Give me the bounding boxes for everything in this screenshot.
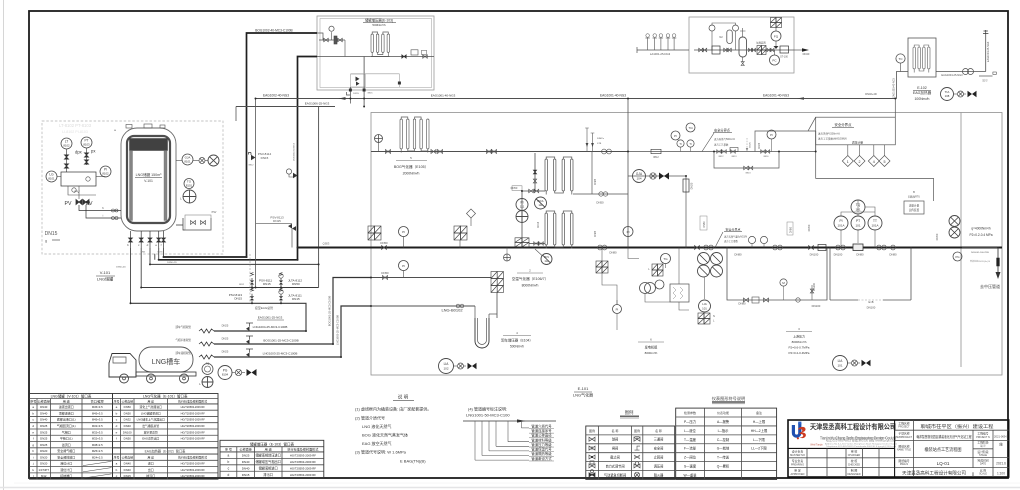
- svg-text:DN50: DN50: [596, 201, 604, 205]
- svg-text:进方天然气500m³/d: 进方天然气500m³/d: [818, 132, 840, 136]
- svg-text:DN50+2D: DN50+2D: [167, 262, 177, 264]
- svg-text:执行标准及密封面形式: 执行标准及密封面形式: [287, 446, 318, 451]
- svg-text:DN15: DN15: [242, 473, 250, 477]
- svg-text:DN15: DN15: [292, 297, 300, 301]
- pipe junction dots: [246, 256, 248, 258]
- table V-101 nozzles: [30, 394, 113, 480]
- instrument wiring: [841, 200, 875, 248]
- tank right lower manifold: [176, 218, 211, 230]
- svg-text:DN80: DN80: [856, 253, 864, 257]
- svg-text:DN15: DN15: [234, 297, 242, 301]
- lines to tank nozzles: [79, 205, 121, 211]
- wire tank liquid to E-103 inlet2 (heavy): [159, 57, 317, 260]
- nozzle downpipes to unloading: [130, 248, 132, 303]
- wire EAG drop to regulator callout: [894, 99, 896, 118]
- TI/PI cluster above line: [671, 131, 680, 140]
- svg-text:DN25: DN25: [40, 430, 48, 434]
- svg-text:QS03: QS03: [323, 242, 330, 246]
- main line fittings overall: [809, 246, 814, 250]
- svg-text:HG/T20593-2009 RF: HG/T20593-2009 RF: [181, 430, 206, 434]
- wire EAG header B: [236, 106, 335, 108]
- wire EAG to E-102: [897, 72, 909, 99]
- instrument PI-101A: [834, 216, 848, 230]
- svg-text:DN25: DN25: [222, 324, 229, 328]
- svg-text:SCALE: SCALE: [979, 473, 987, 476]
- wire BOG1002 tank to E-103 (heavy): [164, 33, 318, 257]
- svg-text:LNG 液化天然气: LNG 液化天然气: [362, 423, 391, 429]
- svg-text:说 明: 说 明: [398, 394, 409, 401]
- nozzle couplings: [112, 209, 115, 212]
- instrument PT-8103: [81, 137, 92, 148]
- truck esd valve (black): [247, 369, 257, 376]
- svg-text:DN80: DN80: [889, 253, 897, 257]
- svg-text:EAG1002-40-NG3: EAG1002-40-NG3: [263, 94, 289, 98]
- svg-text:101: 101: [702, 307, 707, 311]
- svg-text:LNG储罐 150m³: LNG储罐 150m³: [136, 172, 163, 177]
- truck gauge x: [232, 372, 235, 374]
- svg-text:8102: 8102: [63, 144, 70, 148]
- svg-text:8000m³/h: 8000m³/h: [645, 351, 658, 355]
- JLTA-8111 relief: [279, 288, 283, 303]
- svg-text:5: 5: [884, 160, 886, 164]
- svg-text:2000Nm³/h: 2000Nm³/h: [403, 172, 420, 176]
- svg-text:8101: 8101: [186, 184, 193, 188]
- E-104 filter block: [491, 272, 504, 293]
- svg-text:8000Nm³/h: 8000Nm³/h: [792, 340, 807, 344]
- svg-text:104: 104: [636, 177, 641, 181]
- svg-text:DN50: DN50: [124, 437, 132, 441]
- diamond 5: [884, 145, 886, 156]
- svg-text:加臭装置: 加臭装置: [756, 41, 766, 45]
- svg-text:LL—2下限: LL—2下限: [751, 446, 767, 451]
- E-102 vent riser: [985, 34, 987, 72]
- svg-text:DN20: DN20: [40, 462, 48, 466]
- svg-text:LNG1002-50-MC3: LNG1002-50-MC3: [293, 142, 295, 161]
- svg-text:DN15: DN15: [261, 156, 269, 160]
- dashed link tank box to EAG note: [249, 254, 251, 303]
- wire BOG line continues to regulator loop: [628, 151, 816, 153]
- callout small: safety boundary: [702, 133, 714, 152]
- M circles above line: [748, 236, 755, 243]
- svg-text:E BAG(TN)(B): E BAG(TN)(B): [400, 459, 426, 464]
- riser mid: [811, 285, 813, 300]
- svg-text:Φ32×3.5: Φ32×3.5: [92, 424, 103, 428]
- svg-text:V-101: V-101: [100, 270, 111, 275]
- svg-text:TT: TT: [873, 219, 877, 223]
- svg-text:HH—2上限: HH—2上限: [751, 428, 768, 433]
- svg-text:DN15: DN15: [537, 221, 540, 228]
- svg-text:设 计: 设 计: [980, 444, 986, 448]
- GJA-104 instrument: [633, 170, 646, 183]
- svg-text:电话:022-86576815 邮编:300130: 电话:022-86576815 邮编:300130 网址:www.tjycgk.…: [826, 439, 896, 443]
- svg-text:HG/T20593-2009 RF: HG/T20593-2009 RF: [290, 460, 316, 464]
- truck meter group: double circle: [202, 364, 213, 375]
- svg-text:PI: PI: [627, 230, 630, 234]
- svg-text:审 定: 审 定: [794, 468, 801, 473]
- svg-text:DN100: DN100: [812, 282, 816, 291]
- svg-text:发电机组: 发电机组: [645, 345, 659, 350]
- table E-101 nozzles: [113, 394, 219, 480]
- svg-text:1: 1: [847, 160, 849, 164]
- svg-text:PI: PI: [402, 230, 405, 234]
- svg-text:LNG气化器: LNG气化器: [573, 392, 593, 398]
- svg-text:HG/T20593-2009 RF: HG/T20593-2009 RF: [290, 454, 316, 458]
- svg-text:B: B: [913, 190, 915, 194]
- svg-text:DN100: DN100: [812, 304, 821, 308]
- tank pressurizer box E-103 outer: [317, 16, 434, 90]
- svg-text:管道压力等级: 管道压力等级: [531, 442, 552, 447]
- svg-text:序号: 序号: [114, 454, 120, 459]
- svg-text:T—传送: T—传送: [717, 455, 730, 460]
- svg-text:储罐液相进口: 储罐液相进口: [259, 465, 278, 470]
- PSV-8114 relief on EAG riser: [251, 155, 256, 160]
- dashed instrument signal: [746, 138, 748, 152]
- svg-text:2: 2: [859, 160, 861, 164]
- svg-text:DN15: DN15: [273, 219, 281, 223]
- svg-text:排污口: 排污口: [146, 473, 155, 478]
- legend table: [586, 426, 675, 479]
- svg-text:管口/壁厚: 管口/壁厚: [91, 398, 104, 403]
- svg-text:PI: PI: [674, 134, 677, 138]
- E-103 right drop: [351, 74, 400, 87]
- svg-text:L—液位: L—液位: [684, 428, 696, 433]
- gauge manifold block: [61, 172, 96, 186]
- svg-text:DATE: DATE: [980, 463, 987, 466]
- svg-text:F—流量: F—流量: [684, 446, 697, 451]
- nozzle b: [130, 231, 132, 248]
- callout box: [816, 117, 896, 145]
- svg-text:SUBPROJECT: SUBPROJECT: [896, 436, 913, 439]
- svg-text:BOG1001-25-MC3-C100B: BOG1001-25-MC3-C100B: [328, 296, 332, 327]
- svg-text:执行标准及密封面形式: 执行标准及密封面形式: [178, 398, 207, 403]
- instrument LT-8102: [61, 138, 72, 149]
- svg-text:PI: PI: [616, 308, 619, 312]
- svg-text:DN50: DN50: [703, 221, 706, 228]
- gas cylinder skid box top right: [689, 17, 794, 73]
- svg-text:DN80: DN80: [734, 253, 742, 257]
- svg-text:BOG气化器（E105）: BOG气化器（E105）: [394, 164, 428, 169]
- svg-text:112: 112: [544, 259, 549, 263]
- skid valves/filter: [699, 48, 704, 52]
- control valve station on main line x454-467: [454, 226, 467, 240]
- svg-text:EAG1004-25-NG3: EAG1004-25-NG3: [987, 41, 990, 62]
- diamond 2: [859, 145, 861, 156]
- svg-text:DN32: DN32: [124, 418, 132, 422]
- instrument stack left main line: [368, 226, 381, 240]
- svg-text:2021-069-S: 2021-069-S: [994, 434, 1008, 438]
- wire GJA branch: [628, 176, 686, 248]
- svg-text:STB: STB: [597, 143, 602, 145]
- JLTA-8113 on tank feed riser: [286, 169, 291, 174]
- svg-text:T—温度: T—温度: [684, 437, 697, 442]
- svg-text:公称直径: 公称直径: [121, 454, 133, 459]
- wire E-106 feed riser from BOG line: [522, 153, 535, 191]
- svg-text:G—就地: G—就地: [717, 446, 730, 451]
- svg-text:4: 4: [873, 160, 875, 164]
- svg-text:50MPa: 50MPa: [597, 138, 605, 140]
- svg-text:dpx: dpx: [75, 150, 83, 155]
- svg-text:Address:No.6-1-501 Vanke Zhong: Address:No.6-1-501 Vanke Zhonghuan Baoli…: [825, 443, 898, 446]
- svg-text:100Nm³/h: 100Nm³/h: [915, 97, 930, 101]
- tank inner top dark band: [130, 139, 168, 151]
- svg-text:DN25: DN25: [222, 337, 229, 341]
- svg-text:EAG1001-25-NG3: EAG1001-25-NG3: [258, 316, 283, 320]
- svg-text:调压计量: 调压计量: [852, 141, 863, 145]
- TG circle: [661, 254, 671, 264]
- svg-text:(4) 管道编号标注说明:: (4) 管道编号标注说明:: [468, 406, 507, 412]
- svg-text:LNG储罐至进口: LNG储罐至进口: [141, 411, 161, 415]
- inline tag box on BOG line: [651, 149, 661, 153]
- svg-text:DWG N: DWG N: [900, 463, 909, 466]
- E-103 pressure gauge: [329, 26, 334, 31]
- svg-text:DN15: DN15: [45, 231, 58, 237]
- svg-text:TI: TI: [679, 142, 682, 146]
- svg-text:仪表功能: 仪表功能: [717, 410, 729, 415]
- svg-text:阻火器: 阻火器: [654, 472, 664, 477]
- svg-text:DN100: DN100: [867, 306, 876, 310]
- svg-text:LNG储车上气化器出口: LNG储车上气化器出口: [137, 418, 165, 422]
- svg-text:101: 101: [837, 364, 842, 368]
- tank skid dashed box: [42, 121, 223, 254]
- svg-text:DN50+4D: DN50+4D: [116, 267, 126, 269]
- instrument PT-101: [851, 216, 865, 230]
- svg-text:气动紧急切断阀: 气动紧急切断阀: [604, 472, 626, 477]
- svg-text:顶部进液口: 顶部进液口: [59, 410, 74, 415]
- PSV-8113 relief: [250, 288, 254, 303]
- svg-text:HG/T20593-2009 RF: HG/T20593-2009 RF: [181, 405, 206, 409]
- svg-text:TI4: TI4: [688, 126, 692, 130]
- svg-text:STAGE: STAGE: [979, 454, 987, 457]
- wire unloading hose line 1 (gas return): [214, 330, 306, 332]
- truck cab: [109, 354, 136, 378]
- svg-text:PSV: PSV: [212, 211, 217, 214]
- BOG vaporizer E-105: [400, 117, 429, 153]
- svg-text:H—上限: H—上限: [753, 419, 766, 424]
- svg-text:DN100: DN100: [810, 253, 819, 257]
- svg-text:CHECKED: CHECKED: [848, 463, 860, 466]
- svg-text:仪表图形符号说明: 仪表图形符号说明: [712, 395, 746, 402]
- small circle left: [613, 305, 622, 314]
- svg-text:W—重量: W—重量: [683, 472, 697, 477]
- svg-text:执行标准及密封面形式: 执行标准及密封面形式: [178, 454, 207, 459]
- svg-text:名 称: 名 称: [612, 428, 619, 433]
- svg-text:PG: PG: [955, 255, 959, 259]
- svg-text:8102: 8102: [102, 172, 109, 176]
- svg-text:用 途: 用 途: [63, 398, 70, 403]
- skid boundary main box: [371, 113, 1002, 376]
- svg-text:聊城市茌平区（振兴）建设工程: 聊城市茌平区（振兴）建设工程: [921, 423, 994, 430]
- downstream valves: [749, 48, 753, 51]
- svg-text:气相口: 气相口: [62, 429, 71, 434]
- svg-text:管道材料等级: 管道材料等级: [531, 437, 552, 442]
- flow computer circles: [949, 216, 960, 227]
- wire unloading hose line 2 (BOG): [214, 278, 371, 345]
- wire LNG-B0102: [371, 305, 475, 307]
- svg-text:设计负责: 设计负责: [792, 449, 804, 454]
- svg-text:管道连接序号: 管道连接序号: [531, 428, 552, 433]
- svg-text:LT-8102 PT-8103: LT-8102 PT-8103: [59, 123, 92, 128]
- twin circles: [640, 283, 651, 294]
- svg-text:8000Nm³/h: 8000Nm³/h: [522, 284, 539, 288]
- svg-text:平衡口(1): 平衡口(1): [60, 436, 73, 441]
- air-temp vaporizer E-107: [545, 211, 573, 249]
- PI on loop: [767, 130, 776, 139]
- filter block left of cluster: [596, 261, 608, 273]
- wire EAG-B riser x318.6: [318, 107, 320, 288]
- svg-text:储罐增压器(E-103): 储罐增压器(E-103): [365, 18, 393, 23]
- svg-text:液化上气化器进口: 液化上气化器进口: [140, 405, 163, 409]
- spring vessel: [670, 284, 689, 302]
- svg-text:I—指示: I—指示: [718, 428, 730, 433]
- sub-table E-102 nozzles: [113, 447, 219, 449]
- continuation arrow right of skid: [794, 49, 802, 51]
- svg-text:进方工艺参数为NG(DM)N: 进方工艺参数为NG(DM)N: [818, 137, 847, 141]
- svg-text:TI: TI: [689, 142, 692, 146]
- svg-text:E-102: E-102: [917, 86, 927, 90]
- svg-text:DN20: DN20: [40, 449, 48, 453]
- E-103 inlet manifold: [317, 33, 434, 57]
- svg-text:DN50: DN50: [381, 271, 389, 275]
- svg-text:8815: 8815: [368, 93, 374, 95]
- PCV on riser: [683, 179, 689, 192]
- wire N2 manifold line: [637, 49, 689, 51]
- svg-text:Telephone:022-86576815 Postal: Telephone:022-86576815 Postalcode:300130…: [826, 445, 896, 448]
- svg-text:公称直径: 公称直径: [239, 446, 251, 451]
- E-105 vent circle: [375, 135, 383, 143]
- wire E-104 U-tube: [496, 293, 498, 319]
- svg-text:DN15: DN15: [124, 474, 132, 478]
- svg-text:101A: 101A: [837, 224, 844, 228]
- svg-text:DN100: DN100: [834, 253, 843, 257]
- svg-text:EAG 放空天然气: EAG 放空天然气: [362, 440, 392, 446]
- E-102 TC instrument: [896, 54, 905, 63]
- svg-text:天津昱丞高科工程设计有限公司: 天津昱丞高科工程设计有限公司: [810, 422, 896, 431]
- svg-text:C—控制: C—控制: [717, 437, 730, 442]
- wire unloading hose line 3 (LNG): [214, 306, 371, 357]
- svg-text:DN25: DN25: [242, 454, 250, 458]
- svg-text:HG/T20593-2009 RF: HG/T20593-2009 RF: [290, 473, 316, 477]
- svg-text:DN50: DN50: [807, 224, 811, 231]
- svg-text:管道保温代号: 管道保温代号: [531, 447, 552, 452]
- svg-text:500Nm³/h: 500Nm³/h: [510, 345, 524, 349]
- wire E-103 drain risers: [363, 57, 365, 107]
- svg-text:DN25: DN25: [594, 178, 597, 185]
- PG-101: [953, 252, 962, 261]
- svg-text:液位计口: 液位计口: [60, 467, 72, 472]
- svg-text:PROJECT N: PROJECT N: [976, 436, 990, 439]
- svg-text:EAG1001-40-NG3: EAG1001-40-NG3: [600, 94, 626, 98]
- tank inner side bands: [130, 151, 133, 221]
- svg-text:橇装站点工艺流程图: 橇装站点工艺流程图: [925, 446, 962, 453]
- E-102 outlet: [936, 71, 986, 73]
- svg-text:接地端口: 接地端口: [60, 473, 72, 478]
- svg-text:去中压管道: 去中压管道: [980, 283, 1000, 289]
- svg-text:MASTER NO: MASTER NO: [790, 454, 805, 457]
- svg-text:HG/T20593-2009 RF: HG/T20593-2009 RF: [181, 418, 206, 422]
- wire vent stack riser left: [235, 107, 237, 122]
- svg-text:DN40: DN40: [242, 466, 250, 470]
- svg-text:DN40: DN40: [124, 468, 132, 472]
- E-106 inlet fittings: [529, 189, 534, 193]
- svg-text:进口: 进口: [148, 461, 154, 466]
- svg-text:空温气化器（E106/7）: 空温气化器（E106/7）: [512, 276, 549, 281]
- svg-text:放空至总管: 放空至总管: [144, 430, 158, 434]
- svg-text:NAME TITLE: NAME TITLE: [897, 449, 911, 452]
- svg-text:P2=0.2-0.4 MPa: P2=0.2-0.4 MPa: [969, 233, 992, 237]
- svg-text:Φ38×2.5: Φ38×2.5: [92, 443, 103, 447]
- svg-text:8813: 8813: [746, 173, 752, 175]
- regulator circle on main line: [541, 254, 552, 265]
- wire vertical EAG riser x255: [255, 99, 257, 288]
- svg-text:GJA: GJA: [636, 172, 643, 176]
- svg-text:DN15: DN15: [353, 93, 359, 95]
- svg-text:BOG 液化天然气蒸发气体: BOG 液化天然气蒸发气体: [362, 432, 408, 438]
- svg-text:储罐增压器（E-103）管口表: 储罐增压器（E-103）管口表: [250, 442, 295, 447]
- wire main product header (heavy): [298, 247, 1003, 249]
- svg-text:LNG槽车: LNG槽车: [152, 357, 180, 366]
- svg-text:8816: 8816: [764, 156, 770, 158]
- svg-text:流量计量: 流量计量: [909, 204, 920, 208]
- tank right instruments GJA-8101: [182, 154, 193, 165]
- svg-text:EAG1004-25-NG3: EAG1004-25-NG3: [941, 73, 963, 77]
- svg-text:8101: 8101: [184, 160, 191, 164]
- svg-text:审 核: 审 核: [851, 449, 858, 454]
- svg-text:上游压力: 上游压力: [793, 334, 805, 339]
- tank pressurizer box E-103 inner: [320, 19, 432, 88]
- svg-text:Q—累积: Q—累积: [717, 464, 730, 469]
- vent risers x587 x592: [587, 128, 593, 152]
- svg-text:远传装置: 远传装置: [909, 208, 920, 212]
- svg-text:PREARING: PREARING: [791, 463, 804, 466]
- svg-text:PCV: PCV: [544, 255, 550, 259]
- svg-text:ST-100: ST-100: [780, 56, 788, 59]
- svg-text:图例: 图例: [589, 428, 595, 433]
- svg-text:气相回流口(1): 气相回流口(1): [57, 423, 76, 428]
- safety callout above main line: [715, 232, 723, 248]
- loop2 inline: [858, 299, 883, 301]
- svg-text:BOG1001-25-MC3-C100B: BOG1001-25-MC3-C100B: [263, 339, 298, 343]
- wire PSV8114 discharge: [256, 224, 292, 248]
- svg-text:LNG1003-25-MC3-C100B: LNG1003-25-MC3-C100B: [263, 352, 298, 356]
- svg-text:出气橇装总管: 出气橇装总管: [142, 424, 159, 428]
- instrument TG-8101: [184, 179, 194, 189]
- svg-text:溢流口: 溢流口: [62, 442, 71, 447]
- svg-text:截止阀: 截止阀: [610, 455, 620, 460]
- wire E-107 inlet riser: [521, 191, 523, 248]
- instrument crossed circle: [183, 190, 196, 203]
- tank top fittings: [126, 125, 132, 129]
- paper left edge line: [3, 0, 5, 490]
- E-103 bottom drain box: [351, 74, 366, 87]
- svg-text:PROJECT: PROJECT: [898, 426, 910, 429]
- outlet small meter box: [780, 46, 789, 53]
- title block outer: [788, 420, 1009, 477]
- LIA-101 bottom right cluster: [833, 356, 848, 371]
- wire EAG B downcomer to metering: [960, 113, 962, 368]
- truck tank trailer: [139, 347, 193, 372]
- svg-text:DN50: DN50: [790, 226, 793, 233]
- boxed DN50 label: [700, 216, 707, 230]
- svg-text:LI-8102 PI-8103: LI-8102 PI-8103: [62, 130, 88, 134]
- title block company logo JS: [792, 422, 806, 440]
- svg-text:LNG储罐（V-101）管口表: LNG储罐（V-101）管口表: [51, 393, 92, 398]
- svg-text:球阀: 球阀: [612, 437, 618, 442]
- diamond 4: [873, 145, 875, 156]
- svg-text:101: 101: [855, 224, 860, 228]
- angle valve on PSV8114 line: [288, 224, 296, 231]
- svg-text:Φ32×3.5: Φ32×3.5: [92, 437, 103, 441]
- truck chassis: [136, 372, 196, 376]
